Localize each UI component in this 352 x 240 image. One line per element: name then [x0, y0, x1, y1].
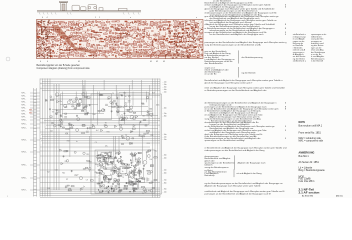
svg-text:ng der Betrieb: ng der Betrieb	[242, 71, 257, 74]
svg-text:Bestückungsplan von der B-Seit: Bestückungsplan von der B-Seite gesehen	[37, 64, 81, 67]
svg-text:Abgleich der Baugruppe nach: Abgleich der Baugruppe nach	[238, 161, 267, 164]
svg-text:1n: 1n	[105, 153, 107, 155]
svg-text:41: 41	[150, 61, 152, 63]
svg-text:10k: 10k	[134, 155, 137, 157]
svg-text:Betriebssp: Betriebssp	[205, 174, 216, 177]
svg-text:MP4 –: MP4 –	[22, 102, 27, 104]
svg-text:pannungen an der Bestelleinhei: pannungen an der Bestelleinheit und Abgl…	[205, 192, 271, 195]
svg-text:T12: T12	[123, 93, 126, 95]
svg-text:1n: 1n	[126, 188, 128, 190]
svg-text:MP7 –: MP7 –	[22, 111, 27, 113]
svg-text:e: e	[196, 17, 197, 19]
svg-text:er Betriebsspannungen an der B: er Betriebsspannungen an der Bestelleinh…	[205, 89, 267, 92]
svg-text:R31: R31	[102, 157, 105, 159]
svg-text:– 9ab: – 9ab	[163, 134, 167, 136]
svg-text:4: 4	[47, 61, 48, 63]
svg-text:– 6ab: – 6ab	[163, 108, 167, 110]
svg-text:– 4ab: – 4ab	[163, 158, 167, 160]
svg-text:41: 41	[78, 61, 80, 63]
svg-text:T12: T12	[100, 186, 103, 188]
svg-text:R19: R19	[67, 140, 70, 142]
svg-text:22k: 22k	[94, 172, 97, 174]
svg-text:1n: 1n	[125, 96, 127, 98]
svg-text:Abgleich der Baugruppe nach Me: Abgleich der Baugruppe nach Messplan wei…	[205, 184, 262, 187]
svg-text:1n: 1n	[83, 186, 85, 188]
svg-text:C4: C4	[139, 163, 141, 165]
svg-text:R31: R31	[47, 188, 50, 190]
svg-text:R31: R31	[135, 159, 138, 161]
svg-text:C21: C21	[71, 103, 74, 105]
svg-text:47u: 47u	[45, 101, 48, 103]
svg-text:R19: R19	[116, 173, 119, 175]
svg-text:42: 42	[156, 61, 158, 63]
svg-text:R19: R19	[147, 143, 150, 145]
svg-text:C4: C4	[105, 191, 107, 193]
svg-text:1n: 1n	[137, 161, 139, 163]
svg-text:– 2ab: – 2ab	[163, 84, 167, 86]
svg-text:– 7ab: – 7ab	[163, 113, 167, 115]
svg-text:T12: T12	[77, 104, 80, 106]
svg-text:– 1ab: – 1ab	[163, 137, 167, 139]
svg-text:– 6ab: – 6ab	[163, 173, 167, 175]
svg-text:47u: 47u	[59, 101, 62, 103]
svg-text:R19: R19	[152, 92, 155, 94]
svg-text:spannungen an der Bestelleinhe: spannungen an der Bestelleinheit und Abg…	[205, 139, 246, 142]
svg-text:der Betriebsspannung: der Betriebsspannung	[242, 56, 264, 59]
svg-text:R19: R19	[141, 103, 144, 105]
svg-text:100n: 100n	[95, 164, 99, 166]
svg-text:T3: T3	[98, 183, 100, 185]
svg-text:45: 45	[163, 61, 165, 63]
svg-text:T8: T8	[105, 123, 107, 125]
svg-text:2.1 AF section: 2.1 AF section	[299, 191, 320, 195]
svg-text:MP5 –: MP5 –	[22, 105, 27, 107]
svg-text:T8: T8	[120, 95, 122, 97]
svg-text:4u7: 4u7	[96, 130, 99, 132]
svg-text:– 8ab: – 8ab	[163, 183, 167, 185]
svg-text:T12: T12	[47, 172, 50, 174]
svg-text:C21: C21	[101, 167, 104, 169]
svg-text:e: e	[130, 17, 131, 19]
svg-text:10k: 10k	[107, 164, 110, 166]
svg-text:C9: C9	[113, 191, 115, 193]
svg-text:R12: R12	[86, 154, 89, 156]
svg-text:R12: R12	[148, 190, 151, 192]
svg-text:C9: C9	[86, 180, 88, 182]
svg-text:R12: R12	[62, 173, 65, 175]
svg-text:1k: 1k	[123, 107, 125, 109]
svg-text:gleich der Baugruppe nach Mess: gleich der Baugruppe nach Messplan weite…	[205, 81, 254, 84]
svg-text:MP10 –: MP10 –	[22, 120, 28, 122]
svg-text:R19: R19	[128, 167, 131, 169]
svg-text:T3: T3	[140, 170, 142, 172]
svg-text:MP11 –: MP11 –	[22, 124, 27, 126]
svg-text:C4: C4	[120, 191, 122, 193]
svg-text:R7: R7	[66, 179, 68, 181]
svg-text:4u7: 4u7	[124, 185, 127, 187]
svg-text:C17: C17	[85, 113, 88, 115]
svg-text:1: 1	[95, 17, 96, 19]
svg-text:10k: 10k	[114, 164, 117, 166]
svg-text:MP13 –: MP13 –	[22, 140, 28, 142]
svg-text:R7: R7	[65, 161, 67, 163]
svg-text:2k2: 2k2	[50, 131, 53, 133]
svg-text:2k2: 2k2	[130, 182, 133, 184]
svg-text:4: 4	[47, 17, 48, 19]
svg-text:– 9ab: – 9ab	[163, 189, 167, 191]
svg-text:R19: R19	[142, 116, 145, 118]
svg-text:der Bestelleinhei: der Bestelleinhei	[205, 62, 224, 65]
svg-text:– 8ab: – 8ab	[163, 116, 167, 118]
svg-text:1k: 1k	[151, 116, 153, 118]
svg-text:C4: C4	[115, 103, 117, 105]
svg-text:Bus MA 1: Bus MA 1	[299, 155, 310, 158]
svg-text:R12: R12	[139, 174, 142, 176]
svg-text:4: 4	[40, 61, 41, 63]
svg-text:C4: C4	[112, 93, 114, 95]
svg-text:R31: R31	[107, 132, 110, 134]
svg-text:MA1 = component side: MA1 = component side	[299, 140, 324, 143]
svg-text:riebsspannungen an der Bestell: riebsspannungen an der Bestelleinheit un…	[205, 149, 266, 152]
svg-text:1: 1	[99, 17, 100, 19]
svg-text:MP1: MP1	[29, 110, 32, 112]
svg-text:T3: T3	[100, 184, 102, 186]
svg-text:MP12 –: MP12 –	[22, 128, 28, 130]
svg-text:MP1 –: MP1 –	[22, 93, 27, 95]
svg-text:47u: 47u	[105, 145, 108, 147]
svg-text:Bstg = Bestückungsseite: Bstg = Bestückungsseite	[299, 169, 326, 172]
svg-text:10k: 10k	[60, 116, 63, 118]
svg-text:– 2ab: – 2ab	[163, 139, 167, 141]
svg-text:10k: 10k	[131, 131, 134, 133]
svg-text:n der Bestell: n der Bestell	[311, 60, 324, 63]
svg-text:10k: 10k	[150, 159, 153, 161]
svg-text:1n: 1n	[76, 141, 78, 143]
svg-text:R44: R44	[93, 114, 96, 116]
svg-text:C4: C4	[138, 170, 140, 172]
svg-text:4: 4	[42, 17, 43, 19]
svg-text:T3: T3	[125, 135, 127, 137]
svg-text:MP6 –: MP6 –	[22, 108, 27, 110]
svg-text:T3: T3	[103, 110, 105, 112]
svg-text:T3: T3	[52, 112, 54, 114]
svg-text:R12: R12	[154, 151, 157, 153]
svg-text:– 5ab: – 5ab	[163, 92, 167, 94]
svg-text:MP2: MP2	[29, 113, 32, 115]
svg-text:2k2: 2k2	[125, 103, 128, 105]
svg-text:MP16 –: MP16 –	[22, 178, 28, 180]
svg-text:MP9 –: MP9 –	[22, 117, 27, 119]
svg-text:C21: C21	[55, 170, 58, 172]
svg-text:– 1ab: – 1ab	[163, 192, 167, 194]
svg-text:T8: T8	[147, 113, 149, 115]
svg-text:10k: 10k	[74, 109, 77, 111]
svg-text:MP8 –: MP8 –	[22, 114, 27, 116]
svg-text:MP2 –: MP2 –	[22, 96, 27, 98]
svg-text:MP14 –: MP14 –	[22, 152, 28, 154]
svg-text:Ab Serien-Nr. 1851: Ab Serien-Nr. 1851	[299, 161, 320, 164]
svg-text:100n: 100n	[156, 104, 160, 106]
svg-text:T3: T3	[97, 166, 99, 168]
svg-text:T3: T3	[122, 177, 124, 179]
svg-text:sung der Betriebsspannungen an: sung der Betriebsspannungen an der Beste…	[205, 44, 262, 47]
svg-text:R31: R31	[111, 186, 114, 188]
svg-text:1n: 1n	[111, 163, 113, 165]
svg-text:From serial No. 1851: From serial No. 1851	[299, 132, 322, 135]
svg-text:Component diagram (drawing) fr: Component diagram (drawing) from compone…	[37, 67, 91, 70]
svg-text:– 3ab: – 3ab	[163, 87, 167, 89]
svg-text:Bus section until MA 1: Bus section until MA 1	[299, 125, 323, 128]
svg-text:FuG 13a 1/Bi 1: FuG 13a 1/Bi 1	[299, 180, 316, 183]
svg-text:R12: R12	[104, 188, 107, 190]
svg-text:22k: 22k	[74, 175, 77, 177]
svg-text:R44: R44	[126, 109, 129, 111]
svg-text:T8: T8	[107, 99, 109, 101]
svg-text:ssung der Betriebsspannu: ssung der Betriebsspannu	[205, 166, 230, 169]
svg-text:– 1ab: – 1ab	[163, 82, 167, 84]
svg-text:100n: 100n	[131, 185, 135, 187]
svg-text:T12: T12	[109, 152, 112, 154]
svg-text:C4: C4	[114, 181, 116, 183]
svg-text:A1 B/12 884: A1 B/12 884	[302, 195, 314, 198]
svg-text:1n: 1n	[122, 171, 124, 173]
svg-text:MP17 –: MP17 –	[22, 190, 28, 192]
svg-text:MP3 –: MP3 –	[22, 99, 27, 101]
svg-text:1n: 1n	[60, 122, 62, 124]
svg-text:– 3ab: – 3ab	[163, 155, 167, 157]
svg-text:– 7ab: – 7ab	[163, 180, 167, 182]
svg-text:T8: T8	[100, 164, 102, 166]
svg-text:– 5ab: – 5ab	[163, 170, 167, 172]
svg-text:T3: T3	[110, 171, 112, 173]
svg-text:(B4 05): (B4 05)	[336, 196, 343, 198]
svg-text:C4: C4	[95, 142, 97, 144]
svg-text:eit und Abgleich der Baug: eit und Abgleich der Baug	[237, 172, 263, 175]
svg-text:1n: 1n	[129, 171, 131, 173]
svg-text:T3: T3	[142, 193, 144, 195]
svg-text:en an der Be: en an der Be	[205, 73, 218, 76]
svg-text:1n: 1n	[123, 175, 125, 177]
svg-text:1n: 1n	[110, 174, 112, 176]
svg-text:MP15 –: MP15 –	[22, 165, 28, 167]
svg-text:stelleinheit u: stelleinheit u	[293, 60, 306, 63]
svg-text:an der Bestelleinheit und Abgl: an der Bestelleinheit und Abgleich der B…	[210, 33, 265, 36]
svg-text:NOTE: NOTE	[299, 121, 306, 124]
svg-text:R31: R31	[151, 135, 154, 137]
svg-text:T3: T3	[102, 159, 104, 161]
svg-text:– 4ab: – 4ab	[163, 89, 167, 91]
